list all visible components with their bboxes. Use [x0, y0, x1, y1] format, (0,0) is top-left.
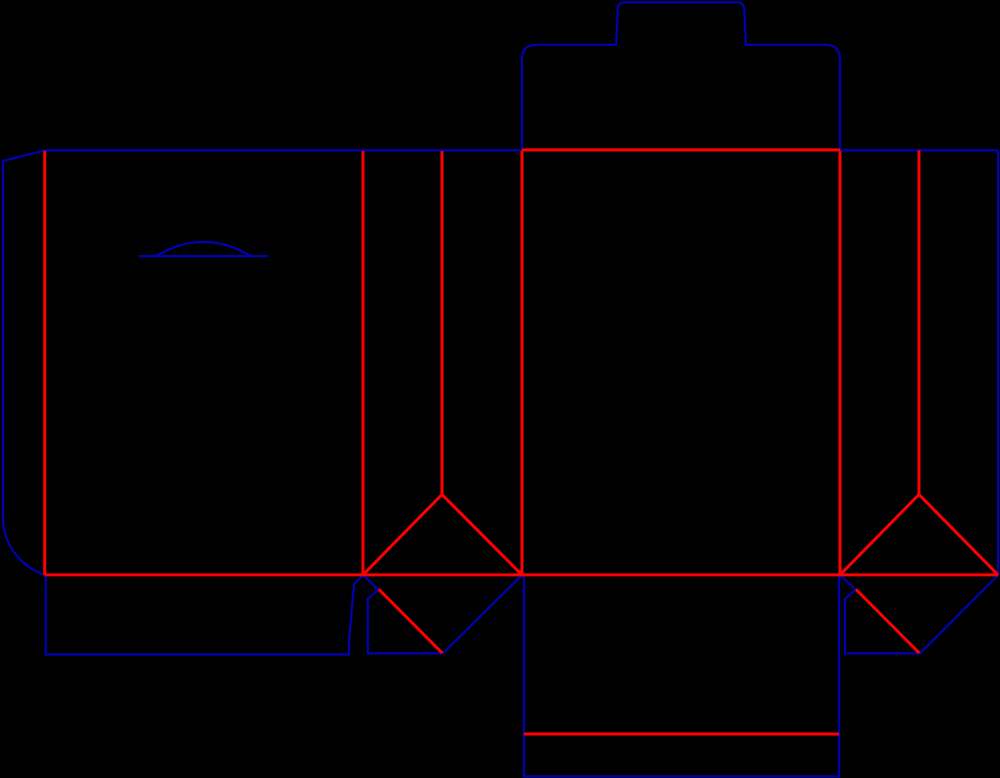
- left gusset flap cut: [363, 575, 443, 653]
- top edge cut line left section: [45, 149, 522, 151]
- front panel right crease: [838, 151, 841, 575]
- left bottom dust flap: [46, 575, 363, 654]
- right gusset diagonal cut: [920, 575, 999, 654]
- right gusset diagonal crease b: [919, 495, 998, 575]
- left gusset diagonal crease b: [442, 495, 522, 575]
- right gusset flap cut: [840, 575, 920, 653]
- right side panel center crease: [917, 150, 920, 494]
- right lower gusset crease: [856, 589, 919, 653]
- left gusset diagonal crease a: [363, 495, 442, 575]
- bottom flap glue crease: [524, 732, 839, 735]
- left side panel center crease: [440, 151, 443, 494]
- thumb notch base line: [139, 255, 269, 257]
- glue flap outline: [3, 150, 45, 574]
- right gusset diagonal crease a: [840, 495, 919, 575]
- top edge cut line right section: [840, 149, 998, 151]
- tuck lid outline with tab: [522, 2, 840, 151]
- lid fold crease: [522, 148, 840, 151]
- front panel left crease: [520, 151, 523, 575]
- crease lines (red): [45, 150, 998, 734]
- left gusset diagonal cut: [443, 575, 522, 654]
- bottom closing flap outline: [524, 575, 839, 776]
- right edge cut line: [997, 150, 999, 575]
- back panel right crease: [361, 151, 364, 575]
- glue flap crease: [43, 151, 46, 575]
- left lower gusset crease: [379, 589, 442, 653]
- main horizontal crease: [45, 573, 998, 576]
- thumb notch arc: [156, 242, 251, 256]
